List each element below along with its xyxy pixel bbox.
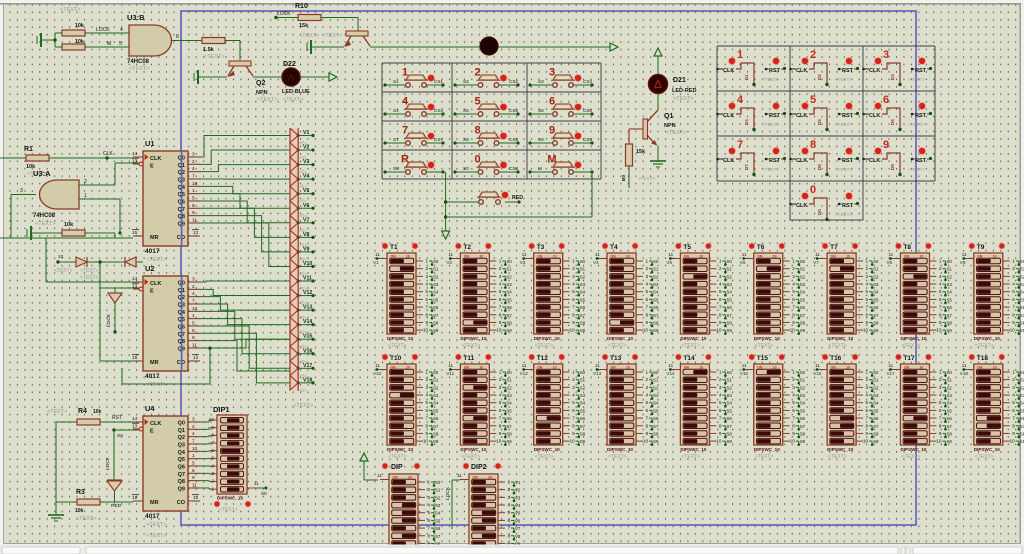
svg-text:DIPSWC_10: DIPSWC_10 — [827, 447, 853, 452]
svg-text:1: 1 — [507, 480, 510, 485]
svg-text:1: 1 — [572, 259, 575, 264]
svg-text:8: 8 — [499, 423, 502, 428]
svg-text:U4: U4 — [145, 404, 155, 413]
wire — [321, 18, 358, 32]
svg-text:S8: S8 — [946, 320, 952, 325]
svg-text:5: 5 — [939, 400, 942, 405]
wire long net to arrow — [370, 46, 610, 48]
svg-text:R4: R4 — [78, 408, 87, 415]
svg-text:V1: V1 — [515, 480, 521, 485]
DIP switch T11 — [446, 354, 512, 460]
svg-text:11: 11 — [448, 363, 453, 368]
svg-text:S1: S1 — [435, 488, 441, 493]
svg-text:0: 0 — [474, 154, 480, 166]
svg-text:S1: S1 — [1020, 378, 1024, 383]
svg-text:3: 3 — [192, 152, 195, 158]
svg-text:S6: S6 — [433, 416, 439, 421]
svg-text:V1: V1 — [303, 130, 309, 136]
svg-text:3: 3 — [1012, 385, 1015, 390]
svg-text:3: 3 — [572, 274, 575, 279]
svg-text:11: 11 — [522, 252, 527, 257]
svg-text:Q2: Q2 — [256, 80, 265, 87]
svg-text:3: 3 — [572, 385, 575, 390]
svg-text:14: 14 — [132, 276, 138, 282]
svg-text:V2: V2 — [446, 260, 452, 265]
svg-text:CO: CO — [177, 500, 186, 506]
svg-text:S5: S5 — [946, 408, 952, 413]
svg-text:2: 2 — [792, 377, 795, 382]
diode D22 LED-BLUE — [282, 61, 310, 103]
svg-text:10: 10 — [423, 439, 429, 444]
svg-text:4: 4 — [425, 282, 428, 287]
svg-text:D3: D3 — [890, 74, 895, 80]
wire base of Q1 — [629, 129, 643, 144]
svg-text:D22: D22 — [283, 61, 296, 68]
svg-text:<TEXT>: <TEXT> — [535, 343, 554, 349]
svg-text:S7: S7 — [726, 424, 732, 429]
svg-text:5: 5 — [507, 510, 510, 515]
svg-text:2: 2 — [192, 424, 195, 430]
svg-text:S1: S1 — [580, 267, 586, 272]
svg-text:3: 3 — [792, 385, 795, 390]
svg-text:U2: U2 — [145, 264, 155, 273]
svg-text:11: 11 — [815, 363, 820, 368]
svg-text:<TEXT>: <TEXT> — [54, 268, 73, 274]
svg-text:DIPSWC_10: DIPSWC_10 — [680, 336, 706, 341]
svg-text:S2: S2 — [463, 79, 469, 84]
svg-text:S9: S9 — [946, 328, 952, 333]
svg-text:S5: S5 — [873, 297, 879, 302]
svg-text:1: 1 — [192, 453, 195, 459]
svg-text:S2: S2 — [1020, 385, 1024, 390]
svg-text:10: 10 — [716, 328, 722, 333]
svg-text:V10: V10 — [373, 371, 382, 376]
key 6 (CLK/RST cell) — [862, 94, 932, 131]
svg-text:T9: T9 — [977, 244, 985, 251]
svg-text:10k: 10k — [75, 23, 85, 29]
svg-text:Q6: Q6 — [178, 464, 185, 470]
svg-text:5: 5 — [719, 400, 722, 405]
svg-text:11: 11 — [457, 473, 462, 478]
DIP switch T14 — [666, 354, 732, 460]
svg-text:3: 3 — [883, 49, 889, 61]
svg-text:6: 6 — [1012, 408, 1015, 413]
wire ground leg — [56, 422, 77, 514]
svg-text:5: 5 — [939, 289, 942, 294]
svg-text:S6: S6 — [800, 305, 806, 310]
svg-text:S6: S6 — [435, 526, 441, 531]
svg-text:S6: S6 — [1020, 416, 1024, 421]
svg-text:8: 8 — [427, 533, 430, 538]
svg-text:<TEXT>: <TEXT> — [257, 97, 277, 103]
button 7 with LED — [383, 125, 444, 146]
svg-text:1: 1 — [737, 49, 743, 61]
svg-text:1: 1 — [84, 193, 87, 199]
svg-text:S7: S7 — [506, 424, 512, 429]
svg-text:8: 8 — [810, 139, 816, 151]
key 2 (CLK/RST cell) — [789, 49, 859, 86]
wire with node B0 — [621, 166, 655, 188]
svg-text:S2: S2 — [433, 385, 439, 390]
button 9 with LED — [528, 125, 593, 146]
svg-text:3: 3 — [719, 274, 722, 279]
svg-text:<TEXT>: <TEXT> — [129, 66, 149, 72]
svg-text:DIPSWC_10: DIPSWC_10 — [900, 447, 926, 452]
svg-text:Q3: Q3 — [178, 442, 185, 448]
svg-text:Q1: Q1 — [178, 428, 185, 434]
svg-text:5: 5 — [192, 320, 195, 326]
svg-text:S6: S6 — [946, 305, 952, 310]
svg-text:8: 8 — [792, 423, 795, 428]
svg-text:S4: S4 — [873, 290, 879, 295]
button 6 with LED — [528, 96, 593, 117]
svg-text:4: 4 — [572, 393, 575, 398]
key 5 (CLK/RST cell) — [789, 94, 859, 131]
svg-text:7: 7 — [866, 305, 869, 310]
key 8 (CLK/RST cell) — [789, 139, 859, 176]
output terminal arrow — [610, 43, 618, 51]
svg-text:Q7: Q7 — [178, 472, 185, 478]
svg-text:T14: T14 — [683, 355, 695, 362]
svg-text:V2: V2 — [303, 145, 309, 151]
svg-text:<TEXT>: <TEXT> — [76, 516, 96, 522]
svg-text:6: 6 — [425, 408, 428, 413]
svg-text:CLK: CLK — [103, 151, 113, 157]
resistor R11 15k (vertical) — [626, 144, 647, 166]
svg-text:V10: V10 — [303, 261, 312, 267]
svg-text:U1: U1 — [145, 139, 155, 148]
svg-text:2: 2 — [507, 487, 510, 492]
button M with LED — [528, 154, 593, 175]
svg-text:10: 10 — [863, 328, 869, 333]
svg-text:M: M — [538, 166, 542, 171]
svg-text:15k: 15k — [299, 23, 309, 29]
DIP switch T3 — [520, 243, 586, 349]
svg-text:T8: T8 — [903, 244, 911, 251]
wire — [300, 76, 330, 78]
svg-text:S1: S1 — [506, 378, 512, 383]
svg-text:4: 4 — [792, 282, 795, 287]
svg-text:Q4: Q4 — [178, 450, 186, 456]
svg-text:S5: S5 — [653, 408, 659, 413]
svg-text:6: 6 — [719, 408, 722, 413]
svg-text:9: 9 — [499, 431, 502, 436]
svg-text:S0: S0 — [117, 433, 123, 439]
svg-text:V12: V12 — [520, 371, 529, 376]
svg-text:S9: S9 — [433, 439, 439, 444]
svg-text:11: 11 — [375, 252, 380, 257]
svg-text:Q5: Q5 — [178, 457, 185, 463]
svg-text:S7: S7 — [580, 424, 586, 429]
svg-text:S3: S3 — [653, 282, 659, 287]
svg-text:11: 11 — [668, 252, 673, 257]
svg-text:10: 10 — [496, 439, 502, 444]
op-amp U3:B (AND gate 74HC08) — [127, 13, 172, 72]
svg-text:6: 6 — [866, 297, 869, 302]
svg-text:<TEXT>: <TEXT> — [283, 97, 303, 103]
svg-text:10: 10 — [936, 328, 942, 333]
svg-text:7: 7 — [719, 305, 722, 310]
wire M to U3:B pin 5 — [85, 41, 129, 47]
svg-text:8: 8 — [939, 312, 942, 317]
DIP switch DIP — [377, 473, 441, 554]
svg-text:7: 7 — [499, 416, 502, 421]
svg-text:8: 8 — [719, 312, 722, 317]
svg-text:DIP2: DIP2 — [471, 464, 487, 471]
svg-text:CS6: CS6 — [583, 108, 592, 113]
DIP switch T2 — [446, 243, 512, 349]
svg-text:6: 6 — [192, 468, 195, 474]
resistor 10k (lower) — [55, 39, 85, 50]
svg-text:S6: S6 — [726, 305, 732, 310]
node S0 to U4 E — [112, 428, 139, 439]
transistor Q1 — [643, 110, 686, 146]
svg-text:S7: S7 — [1020, 313, 1024, 318]
svg-text:S8: S8 — [1020, 431, 1024, 436]
svg-text:S9: S9 — [873, 328, 879, 333]
svg-text:S4: S4 — [1020, 290, 1024, 295]
svg-text:9: 9 — [1012, 320, 1015, 325]
svg-text:S0: S0 — [463, 166, 469, 171]
ground — [307, 40, 344, 54]
resistor R4 — [47, 408, 102, 425]
svg-text:DIPSWC_10: DIPSWC_10 — [607, 336, 633, 341]
diode D23 (dark LED on wire) — [480, 37, 498, 55]
svg-text:S7: S7 — [1020, 424, 1024, 429]
svg-text:7: 7 — [425, 416, 428, 421]
svg-text:<TEXT>: <TEXT> — [80, 275, 99, 281]
svg-text:3: 3 — [427, 495, 430, 500]
svg-text:S1: S1 — [726, 267, 732, 272]
svg-text:6: 6 — [792, 408, 795, 413]
svg-text:D1: D1 — [744, 74, 749, 80]
svg-text:S7: S7 — [393, 137, 399, 142]
svg-text:S3: S3 — [946, 282, 952, 287]
svg-text:2: 2 — [211, 479, 214, 484]
svg-text:6: 6 — [866, 408, 869, 413]
svg-text:2: 2 — [866, 266, 869, 271]
svg-text:S5: S5 — [800, 408, 806, 413]
svg-text:2: 2 — [427, 487, 430, 492]
svg-text:S2: S2 — [653, 385, 659, 390]
svg-text:S0: S0 — [946, 259, 952, 264]
svg-text:S3: S3 — [873, 393, 879, 398]
key 0 (CLK/RST cell) — [789, 184, 859, 221]
svg-text:S7: S7 — [726, 313, 732, 318]
svg-text:S2: S2 — [435, 495, 441, 500]
svg-text:S5: S5 — [433, 408, 439, 413]
svg-text:10: 10 — [863, 439, 869, 444]
svg-text:CS9: CS9 — [583, 137, 592, 142]
svg-text:9: 9 — [425, 320, 428, 325]
svg-text:4: 4 — [572, 282, 575, 287]
svg-text:S3: S3 — [873, 282, 879, 287]
svg-text:10: 10 — [496, 328, 502, 333]
svg-text:S6: S6 — [538, 108, 544, 113]
svg-text:LED-BLUE: LED-BLUE — [282, 89, 310, 95]
svg-text:S6: S6 — [726, 416, 732, 421]
svg-text:S6: S6 — [1020, 305, 1024, 310]
svg-text:S7: S7 — [873, 424, 879, 429]
svg-text:CS3: CS3 — [583, 79, 592, 84]
svg-text:V18: V18 — [960, 371, 969, 376]
svg-text:11: 11 — [192, 342, 197, 348]
svg-text:4017: 4017 — [145, 373, 160, 380]
svg-text:<TEXT>: <TEXT> — [975, 343, 994, 349]
svg-text:S5: S5 — [726, 408, 732, 413]
svg-text:4: 4 — [645, 282, 648, 287]
svg-text:DIPSWC_10: DIPSWC_10 — [460, 447, 486, 452]
svg-text:S1: S1 — [653, 378, 659, 383]
svg-text:RST: RST — [112, 415, 122, 421]
button 2 with LED — [453, 67, 519, 88]
svg-text:8: 8 — [211, 433, 214, 438]
wire — [657, 93, 659, 110]
svg-text:7: 7 — [425, 305, 428, 310]
svg-text:T2: T2 — [463, 244, 471, 251]
diode D21 LED-RED — [649, 75, 697, 103]
svg-text:S2: S2 — [653, 274, 659, 279]
svg-text:5: 5 — [425, 400, 428, 405]
svg-text:S9: S9 — [653, 439, 659, 444]
svg-text:5: 5 — [425, 289, 428, 294]
svg-text:SR: SR — [393, 166, 400, 171]
svg-text:E: E — [150, 164, 154, 170]
svg-text:4: 4 — [507, 503, 510, 508]
svg-text:4: 4 — [499, 393, 502, 398]
svg-text:11: 11 — [815, 252, 820, 257]
svg-text:5: 5 — [499, 289, 502, 294]
svg-text:<TEXT>: <TEXT> — [828, 343, 847, 349]
keypad grid frame — [382, 63, 601, 179]
svg-text:10: 10 — [570, 439, 576, 444]
wire U2 CLK — [46, 238, 133, 282]
svg-text:D7: D7 — [744, 164, 749, 170]
svg-text:S7: S7 — [800, 313, 806, 318]
svg-text:6: 6 — [425, 297, 428, 302]
svg-text:14: 14 — [132, 151, 138, 157]
svg-text:10: 10 — [58, 254, 64, 260]
svg-text:11: 11 — [192, 217, 197, 223]
svg-text:<TEXT>: <TEXT> — [60, 7, 80, 13]
counter U2 (4017) — [132, 264, 200, 388]
svg-text:S4: S4 — [653, 401, 659, 406]
svg-text:Q9: Q9 — [178, 486, 185, 492]
svg-text:5: 5 — [719, 289, 722, 294]
svg-text:V4: V4 — [303, 174, 309, 180]
svg-text:11: 11 — [742, 252, 747, 257]
svg-text:T5: T5 — [683, 244, 691, 251]
svg-text:S1: S1 — [946, 267, 952, 272]
svg-text:2: 2 — [572, 266, 575, 271]
node markers DIP row — [382, 463, 502, 471]
svg-text:8: 8 — [507, 533, 510, 538]
key 9 (CLK/RST cell) — [862, 139, 932, 176]
svg-text:9: 9 — [719, 431, 722, 436]
svg-text:V5: V5 — [666, 260, 672, 265]
svg-text:S4: S4 — [800, 290, 806, 295]
svg-text:4: 4 — [1012, 393, 1015, 398]
svg-text:V7: V7 — [303, 217, 309, 223]
svg-text:3: 3 — [499, 274, 502, 279]
svg-text:9: 9 — [192, 335, 195, 341]
svg-text:S6: S6 — [433, 305, 439, 310]
svg-text:S1: S1 — [393, 79, 399, 84]
svg-text:<TEXT>: <TEXT> — [146, 522, 166, 528]
svg-text:1: 1 — [499, 259, 502, 264]
svg-text:S0: S0 — [726, 259, 732, 264]
svg-text:D8: D8 — [817, 164, 822, 170]
svg-text:S7: S7 — [946, 313, 952, 318]
svg-text:1: 1 — [719, 370, 722, 375]
svg-text:S1: S1 — [433, 267, 439, 272]
svg-text:5: 5 — [211, 456, 214, 461]
svg-text:1: 1 — [192, 188, 195, 194]
svg-text:S9: S9 — [506, 328, 512, 333]
svg-text:RST: RST — [769, 158, 781, 164]
svg-text:T7: T7 — [830, 244, 838, 251]
svg-text:V9: V9 — [960, 260, 966, 265]
svg-text:5: 5 — [645, 289, 648, 294]
svg-text:S7: S7 — [946, 424, 952, 429]
svg-text:S8: S8 — [506, 431, 512, 436]
DIP switch T10 — [373, 354, 439, 460]
resistor R9 1.5k — [202, 38, 225, 61]
svg-text:S3: S3 — [506, 393, 512, 398]
svg-text:RST: RST — [842, 68, 854, 74]
svg-text:14: 14 — [132, 416, 138, 422]
svg-text:11: 11 — [377, 473, 382, 478]
svg-text:RST: RST — [842, 113, 854, 119]
svg-text:S5: S5 — [463, 108, 469, 113]
svg-text:10: 10 — [570, 328, 576, 333]
svg-text:S7: S7 — [433, 424, 439, 429]
svg-text:9: 9 — [792, 320, 795, 325]
wire LOCK vertical — [445, 480, 460, 529]
ground — [194, 70, 227, 84]
svg-text:<TEXT>: <TEXT> — [901, 343, 920, 349]
svg-text:7: 7 — [192, 438, 195, 444]
svg-text:S5: S5 — [653, 297, 659, 302]
svg-text:S9: S9 — [800, 439, 806, 444]
sheet border (blue frame) — [181, 11, 916, 525]
svg-text:S6: S6 — [946, 416, 952, 421]
wire LOCK to U3:B pin 4 — [85, 27, 129, 33]
svg-text:S2: S2 — [506, 274, 512, 279]
svg-text:V6: V6 — [740, 260, 746, 265]
svg-text:S4: S4 — [506, 290, 512, 295]
ground — [37, 33, 55, 47]
svg-text:S2: S2 — [800, 274, 806, 279]
svg-text:V17: V17 — [886, 371, 895, 376]
svg-text:5: 5 — [427, 510, 430, 515]
svg-text:10: 10 — [209, 417, 215, 422]
svg-text:5: 5 — [474, 96, 480, 108]
svg-text:S3: S3 — [580, 393, 586, 398]
svg-text:3: 3 — [499, 385, 502, 390]
svg-text:6: 6 — [645, 408, 648, 413]
svg-text:V13: V13 — [303, 305, 312, 311]
wire U2 CO net — [122, 347, 212, 385]
svg-text:LOCK: LOCK — [105, 456, 111, 470]
svg-text:<TEXT>: <TEXT> — [35, 221, 55, 227]
svg-text:R1: R1 — [24, 146, 33, 153]
svg-text:V12: V12 — [303, 290, 312, 296]
svg-text:6: 6 — [645, 297, 648, 302]
svg-text:2: 2 — [192, 284, 195, 290]
svg-text:7: 7 — [211, 440, 214, 445]
svg-text:S1: S1 — [580, 378, 586, 383]
